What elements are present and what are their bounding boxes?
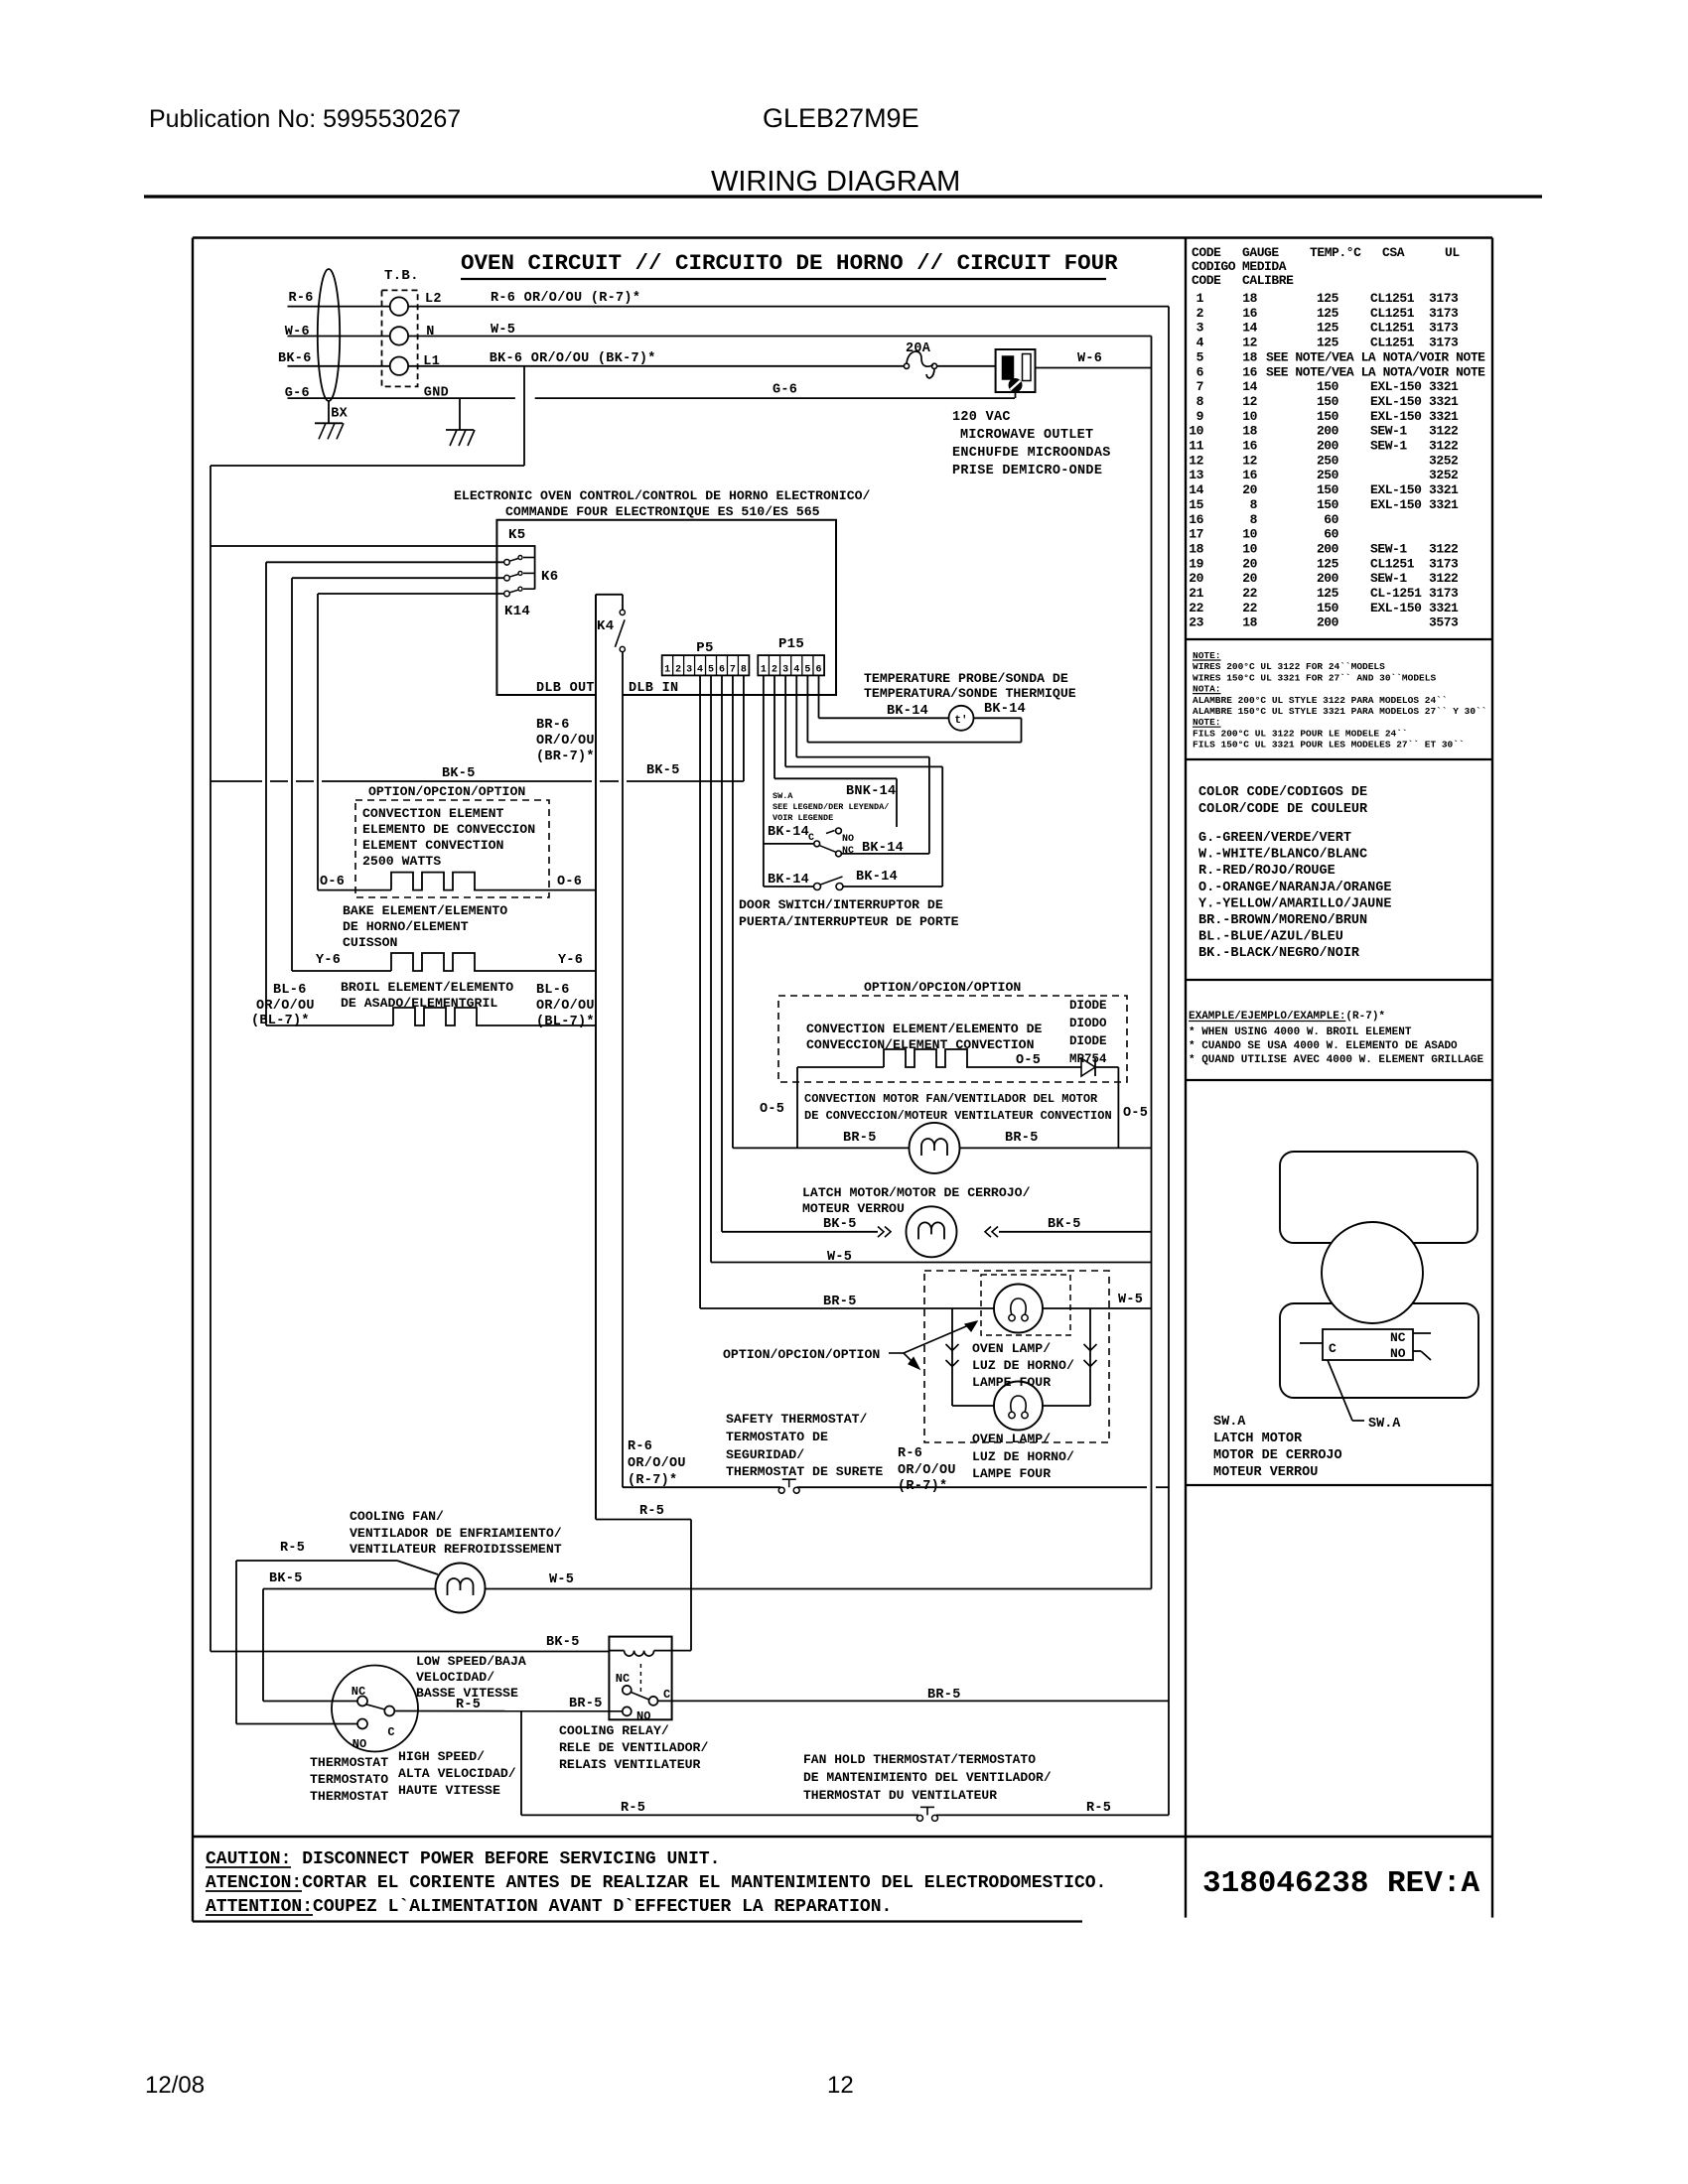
svg-text:4: 4 (793, 665, 799, 676)
svg-text:10: 10 (1242, 541, 1257, 556)
svg-text:2500 WATTS: 2500 WATTS (362, 854, 441, 869)
svg-text:3321: 3321 (1429, 379, 1459, 394)
svg-text:12: 12 (1242, 453, 1257, 468)
svg-text:1: 1 (664, 665, 670, 676)
svg-text:C: C (387, 1725, 394, 1739)
svg-text:LUZ DE HORNO/: LUZ DE HORNO/ (972, 1449, 1074, 1464)
svg-text:125: 125 (1317, 321, 1339, 336)
svg-text:R-6: R-6 (628, 1439, 652, 1454)
svg-text:3173: 3173 (1429, 336, 1459, 350)
svg-text:THERMOSTAT: THERMOSTAT (310, 1755, 388, 1770)
svg-text:CL1251: CL1251 (1370, 291, 1415, 306)
svg-text:EXL-150: EXL-150 (1370, 409, 1422, 424)
svg-text:DLB OUT: DLB OUT (536, 681, 595, 696)
svg-text:250: 250 (1317, 453, 1339, 468)
svg-text:K6: K6 (541, 569, 558, 585)
svg-text:(R-7)*: (R-7)* (628, 1473, 677, 1488)
svg-text:2: 2 (1196, 306, 1204, 321)
svg-text:6: 6 (719, 665, 725, 676)
svg-text:* WHEN USING 4000 W. BROIL ELE: * WHEN USING 4000 W. BROIL ELEMENT (1189, 1026, 1412, 1038)
svg-text:150: 150 (1317, 601, 1339, 615)
svg-text:OR/O/OU: OR/O/OU (536, 734, 595, 749)
svg-text:15: 15 (1189, 497, 1203, 512)
svg-text:7: 7 (730, 665, 736, 676)
svg-text:OVEN LAMP/: OVEN LAMP/ (972, 1432, 1051, 1446)
svg-text:LOW SPEED/BAJA: LOW SPEED/BAJA (416, 1654, 526, 1669)
svg-text:14: 14 (1242, 379, 1257, 394)
svg-text:10: 10 (1189, 424, 1203, 439)
svg-text:SEW-1: SEW-1 (1370, 424, 1407, 439)
svg-text:O-5: O-5 (1016, 1053, 1041, 1068)
svg-text:CODIGO: CODIGO (1192, 259, 1236, 274)
svg-text:8: 8 (1196, 394, 1204, 409)
svg-text:200: 200 (1317, 424, 1339, 439)
svg-text:NC: NC (842, 846, 854, 857)
svg-text:WIRES 150°C UL 3321 FOR 27`` A: WIRES 150°C UL 3321 FOR 27`` AND 30``MOD… (1193, 672, 1436, 683)
svg-text:OPTION/OPCION/OPTION: OPTION/OPCION/OPTION (723, 1347, 880, 1362)
svg-text:60: 60 (1324, 527, 1338, 542)
svg-text:O-5: O-5 (1123, 1106, 1148, 1121)
svg-text:SEW-1: SEW-1 (1370, 571, 1407, 586)
svg-text:19: 19 (1189, 556, 1203, 571)
svg-text:CONVECTION MOTOR FAN/VENTILADO: CONVECTION MOTOR FAN/VENTILADOR DEL MOTO… (804, 1092, 1098, 1106)
svg-text:O-6: O-6 (557, 875, 582, 889)
svg-text:120 VAC: 120 VAC (952, 410, 1011, 425)
svg-text:BK-14: BK-14 (887, 704, 928, 719)
svg-text:R-5: R-5 (639, 1504, 664, 1519)
svg-text:W.-WHITE/BLANCO/BLANC: W.-WHITE/BLANCO/BLANC (1198, 848, 1367, 863)
svg-text:LATCH MOTOR: LATCH MOTOR (1213, 1432, 1303, 1446)
svg-text:BL-6: BL-6 (536, 983, 570, 998)
svg-text:60: 60 (1324, 512, 1338, 527)
svg-text:18: 18 (1242, 349, 1257, 364)
svg-text:RELAIS VENTILATEUR: RELAIS VENTILATEUR (559, 1757, 701, 1772)
svg-text:SW.A: SW.A (1213, 1415, 1246, 1430)
svg-text:BK-5: BK-5 (269, 1571, 303, 1586)
svg-text:SAFETY THERMOSTAT/: SAFETY THERMOSTAT/ (726, 1412, 868, 1427)
svg-text:MOTEUR VERROU: MOTEUR VERROU (1213, 1465, 1318, 1480)
svg-text:125: 125 (1317, 291, 1339, 306)
svg-text:SEE NOTE/VEA LA NOTA/VOIR NOTE: SEE NOTE/VEA LA NOTA/VOIR NOTE (1266, 349, 1485, 364)
svg-text:t': t' (954, 715, 967, 727)
svg-text:BK-14: BK-14 (768, 825, 809, 840)
svg-text:Publication No: 5995530267: Publication No: 5995530267 (149, 105, 461, 133)
svg-text:3321: 3321 (1429, 497, 1459, 512)
svg-text:MOTOR DE CERROJO: MOTOR DE CERROJO (1213, 1448, 1342, 1463)
svg-text:CSA: CSA (1382, 245, 1405, 260)
svg-text:ENCHUFDE MICROONDAS: ENCHUFDE MICROONDAS (952, 446, 1111, 461)
svg-text:125: 125 (1317, 556, 1339, 571)
svg-text:3252: 3252 (1429, 468, 1459, 482)
svg-text:BK-5: BK-5 (546, 1635, 580, 1650)
svg-text:3: 3 (686, 665, 692, 676)
svg-text:FILS 150°C UL 3321 POUR LES MO: FILS 150°C UL 3321 POUR LES MODELES 27``… (1193, 740, 1465, 751)
svg-text:THERMOSTAT DU VENTILATEUR: THERMOSTAT DU VENTILATEUR (803, 1788, 997, 1803)
svg-text:W-6: W-6 (1077, 351, 1102, 366)
svg-text:C: C (663, 1688, 670, 1702)
svg-text:SEGURIDAD/: SEGURIDAD/ (726, 1447, 804, 1462)
svg-text:TEMP.°C: TEMP.°C (1310, 245, 1361, 260)
svg-text:COMMANDE FOUR ELECTRONIQUE ES: COMMANDE FOUR ELECTRONIQUE ES 510/ES 565 (505, 504, 820, 519)
svg-text:NO: NO (636, 1709, 650, 1723)
svg-text:4: 4 (697, 665, 703, 676)
svg-text:3122: 3122 (1429, 424, 1459, 439)
svg-text:VENTILADOR DE ENFRIAMIENTO/: VENTILADOR DE ENFRIAMIENTO/ (350, 1526, 562, 1541)
svg-text:10: 10 (1242, 527, 1257, 542)
svg-text:BL.-BLUE/AZUL/BLEU: BL.-BLUE/AZUL/BLEU (1198, 930, 1343, 945)
svg-text:WIRES 200°C UL 3122 FOR 24``MO: WIRES 200°C UL 3122 FOR 24``MODELS (1193, 661, 1385, 672)
svg-text:W-5: W-5 (491, 323, 515, 338)
svg-text:14: 14 (1189, 482, 1203, 497)
svg-text:VOIR LEGENDE: VOIR LEGENDE (773, 813, 833, 823)
svg-text:OR/O/OU: OR/O/OU (256, 999, 315, 1014)
svg-text:G-6: G-6 (285, 386, 310, 401)
svg-text:NC: NC (1390, 1330, 1406, 1345)
svg-text:ALAMBRE 200°C UL STYLE 3122 PA: ALAMBRE 200°C UL STYLE 3122 PARA MODELOS… (1193, 695, 1448, 706)
svg-text:12: 12 (827, 2072, 854, 2099)
svg-text:250: 250 (1317, 468, 1339, 482)
svg-text:Y-6: Y-6 (316, 953, 341, 968)
svg-text:CL1251: CL1251 (1370, 336, 1415, 350)
svg-text:R-5: R-5 (280, 1541, 305, 1556)
svg-text:EXL-150: EXL-150 (1370, 601, 1422, 615)
svg-text:22: 22 (1242, 586, 1257, 601)
svg-text:18: 18 (1242, 424, 1257, 439)
svg-text:ATENCION:CORTAR EL CORIENTE AN: ATENCION:CORTAR EL CORIENTE ANTES DE REA… (206, 1873, 1106, 1893)
svg-text:NOTA:: NOTA: (1193, 684, 1221, 695)
svg-text:OR/O/OU: OR/O/OU (536, 999, 595, 1014)
svg-text:SW.A: SW.A (1368, 1417, 1401, 1432)
svg-text:5: 5 (708, 665, 714, 676)
svg-text:BROIL ELEMENT/ELEMENTO: BROIL ELEMENT/ELEMENTO (341, 980, 513, 995)
svg-text:21: 21 (1189, 586, 1203, 601)
svg-text:(BR-7)*: (BR-7)* (536, 750, 595, 764)
svg-text:200: 200 (1317, 615, 1339, 630)
svg-text:BR.-BROWN/MORENO/BRUN: BR.-BROWN/MORENO/BRUN (1198, 913, 1367, 928)
svg-text:L1: L1 (423, 354, 440, 369)
svg-text:20: 20 (1189, 571, 1203, 586)
svg-text:CL1251: CL1251 (1370, 556, 1415, 571)
svg-text:OPTION/OPCION/OPTION: OPTION/OPCION/OPTION (864, 980, 1021, 995)
svg-text:18: 18 (1242, 291, 1257, 306)
svg-text:23: 23 (1189, 615, 1203, 630)
svg-text:WIRING DIAGRAM: WIRING DIAGRAM (711, 166, 960, 198)
svg-text:CODE: CODE (1192, 273, 1221, 288)
svg-text:W-5: W-5 (549, 1572, 574, 1587)
svg-text:MEDIDA: MEDIDA (1242, 259, 1287, 274)
svg-text:RELE DE VENTILADOR/: RELE DE VENTILADOR/ (559, 1740, 708, 1755)
svg-text:5: 5 (804, 665, 810, 676)
svg-text:R-5: R-5 (1086, 1801, 1111, 1816)
svg-text:3: 3 (782, 665, 788, 676)
svg-text:K4: K4 (597, 618, 614, 634)
svg-text:GND: GND (424, 386, 449, 401)
svg-text:LAMPE FOUR: LAMPE FOUR (972, 1375, 1051, 1390)
svg-text:9: 9 (1196, 409, 1204, 424)
svg-text:ATTENTION:COUPEZ L`ALIMENTATIO: ATTENTION:COUPEZ L`ALIMENTATION AVANT D`… (206, 1897, 892, 1917)
svg-text:VELOCIDAD/: VELOCIDAD/ (416, 1670, 494, 1685)
svg-text:TEMPERATURA/SONDE THERMIQUE: TEMPERATURA/SONDE THERMIQUE (864, 686, 1076, 701)
svg-text:CALIBRE: CALIBRE (1242, 273, 1294, 288)
svg-text:LATCH MOTOR/MOTOR DE CERROJO/: LATCH MOTOR/MOTOR DE CERROJO/ (802, 1185, 1031, 1200)
svg-text:O-5: O-5 (760, 1102, 784, 1117)
svg-text:18: 18 (1242, 615, 1257, 630)
svg-text:K14: K14 (504, 604, 530, 619)
svg-text:PUERTA/INTERRUPTEUR DE PORTE: PUERTA/INTERRUPTEUR DE PORTE (739, 914, 959, 929)
svg-text:MICROWAVE OUTLET: MICROWAVE OUTLET (960, 428, 1093, 443)
svg-text:3122: 3122 (1429, 439, 1459, 454)
svg-text:3173: 3173 (1429, 556, 1459, 571)
svg-text:12: 12 (1242, 394, 1257, 409)
svg-text:13: 13 (1189, 468, 1203, 482)
svg-text:DE CONVECCION/MOTEUR VENTILATE: DE CONVECCION/MOTEUR VENTILATEUR CONVECT… (804, 1109, 1112, 1123)
svg-text:THERMOSTAT: THERMOSTAT (310, 1789, 388, 1804)
svg-text:COOLING RELAY/: COOLING RELAY/ (559, 1723, 669, 1738)
svg-text:3: 3 (1196, 321, 1204, 336)
svg-text:3173: 3173 (1429, 586, 1459, 601)
svg-text:14: 14 (1242, 321, 1257, 336)
svg-text:NC: NC (352, 1685, 365, 1699)
svg-text:DE HORNO/ELEMENT: DE HORNO/ELEMENT (343, 919, 469, 934)
svg-text:BNK-14: BNK-14 (846, 784, 896, 799)
svg-text:HAUTE VITESSE: HAUTE VITESSE (398, 1783, 500, 1798)
svg-text:EXL-150: EXL-150 (1370, 497, 1422, 512)
svg-text:EXL-150: EXL-150 (1370, 394, 1422, 409)
svg-text:EXL-150: EXL-150 (1370, 482, 1422, 497)
svg-text:BK-5: BK-5 (823, 1217, 857, 1232)
svg-text:CL1251: CL1251 (1370, 306, 1415, 321)
svg-text:BX: BX (331, 407, 348, 422)
svg-text:12/08: 12/08 (145, 2072, 205, 2099)
svg-text:TERMOSTATO: TERMOSTATO (310, 1772, 388, 1787)
svg-text:* QUAND UTILISE AVEC 4000 W. E: * QUAND UTILISE AVEC 4000 W. ELEMENT GRI… (1189, 1054, 1483, 1066)
svg-text:2: 2 (675, 665, 681, 676)
svg-text:16: 16 (1242, 468, 1257, 482)
svg-text:DLB IN: DLB IN (629, 681, 678, 696)
svg-text:SEE NOTE/VEA LA NOTA/VOIR NOTE: SEE NOTE/VEA LA NOTA/VOIR NOTE (1266, 364, 1485, 379)
svg-text:NO: NO (352, 1737, 366, 1751)
svg-text:150: 150 (1317, 497, 1339, 512)
svg-text:DIODO: DIODO (1069, 1017, 1107, 1030)
svg-text:6: 6 (816, 665, 822, 676)
svg-text:DIODE: DIODE (1069, 999, 1107, 1013)
svg-text:16: 16 (1242, 364, 1257, 379)
svg-text:3252: 3252 (1429, 453, 1459, 468)
svg-text:EXL-150: EXL-150 (1370, 379, 1422, 394)
svg-text:18: 18 (1189, 541, 1203, 556)
svg-text:3321: 3321 (1429, 394, 1459, 409)
svg-text:(BL-7)*: (BL-7)* (536, 1015, 595, 1029)
svg-text:COOLING FAN/: COOLING FAN/ (350, 1509, 444, 1524)
svg-text:22: 22 (1189, 601, 1203, 615)
svg-text:Y-6: Y-6 (558, 953, 583, 968)
svg-text:BK-14: BK-14 (856, 870, 898, 885)
svg-text:R.-RED/ROJO/ROUGE: R.-RED/ROJO/ROUGE (1198, 864, 1336, 879)
svg-text:125: 125 (1317, 306, 1339, 321)
svg-text:OVEN CIRCUIT // CIRCUITO DE HO: OVEN CIRCUIT // CIRCUITO DE HORNO // CIR… (461, 250, 1118, 276)
svg-text:150: 150 (1317, 482, 1339, 497)
svg-text:20: 20 (1242, 571, 1257, 586)
svg-text:150: 150 (1317, 394, 1339, 409)
svg-text:200: 200 (1317, 541, 1339, 556)
svg-text:2: 2 (772, 665, 777, 676)
svg-text:CUISSON: CUISSON (343, 935, 397, 950)
svg-text:10: 10 (1242, 409, 1257, 424)
svg-text:3122: 3122 (1429, 541, 1459, 556)
svg-text:P5: P5 (696, 640, 713, 656)
svg-text:150: 150 (1317, 379, 1339, 394)
svg-text:318046238 REV:A: 318046238 REV:A (1202, 1866, 1479, 1901)
svg-text:20: 20 (1242, 482, 1257, 497)
svg-text:22: 22 (1242, 601, 1257, 615)
svg-text:1: 1 (1196, 291, 1204, 306)
svg-text:BL-6: BL-6 (273, 983, 307, 998)
svg-text:CL-1251: CL-1251 (1370, 586, 1422, 601)
svg-text:PRISE DEMICRO-ONDE: PRISE DEMICRO-ONDE (952, 464, 1102, 478)
svg-text:GAUGE: GAUGE (1242, 245, 1279, 260)
svg-text:CONVECTION ELEMENT/ELEMENTO DE: CONVECTION ELEMENT/ELEMENTO DE (806, 1022, 1042, 1036)
svg-text:FILS 200°C UL 3122 POUR LE MOD: FILS 200°C UL 3122 POUR LE MODELE 24`` (1193, 728, 1408, 739)
svg-text:OR/O/OU: OR/O/OU (898, 1463, 956, 1478)
svg-text:20: 20 (1242, 556, 1257, 571)
svg-text:125: 125 (1317, 336, 1339, 350)
svg-text:COLOR/CODE DE COULEUR: COLOR/CODE DE COULEUR (1198, 802, 1368, 817)
svg-text:16: 16 (1242, 306, 1257, 321)
svg-text:BR-5: BR-5 (843, 1131, 877, 1146)
svg-text:GLEB27M9E: GLEB27M9E (763, 103, 919, 133)
svg-text:SEW-1: SEW-1 (1370, 439, 1407, 454)
svg-text:3321: 3321 (1429, 409, 1459, 424)
svg-text:8: 8 (1250, 497, 1258, 512)
svg-text:NOTE:: NOTE: (1193, 717, 1221, 728)
svg-text:P15: P15 (778, 636, 804, 652)
svg-text:DOOR SWITCH/INTERRUPTOR DE: DOOR SWITCH/INTERRUPTOR DE (739, 897, 943, 912)
svg-text:11: 11 (1189, 439, 1203, 454)
svg-text:NO: NO (1390, 1346, 1406, 1361)
svg-text:K5: K5 (508, 527, 525, 543)
svg-text:* CUANDO SE USA 4000 W. ELEMEN: * CUANDO SE USA 4000 W. ELEMENTO DE ASAD… (1189, 1040, 1458, 1052)
svg-text:17: 17 (1189, 527, 1203, 542)
svg-text:BK-14: BK-14 (768, 873, 809, 887)
svg-text:HIGH SPEED/: HIGH SPEED/ (398, 1749, 485, 1764)
svg-text:T.B.: T.B. (384, 268, 419, 284)
svg-text:BK.-BLACK/NEGRO/NOIR: BK.-BLACK/NEGRO/NOIR (1198, 946, 1360, 961)
svg-text:MOTEUR VERROU: MOTEUR VERROU (802, 1201, 905, 1216)
svg-text:BR-5: BR-5 (1005, 1131, 1039, 1146)
svg-text:1: 1 (761, 665, 767, 676)
svg-text:BR-6: BR-6 (536, 718, 570, 733)
svg-text:BK-6: BK-6 (278, 351, 312, 366)
svg-text:8: 8 (1250, 512, 1258, 527)
svg-text:LAMPE FOUR: LAMPE FOUR (972, 1466, 1051, 1481)
svg-text:OPTION/OPCION/OPTION: OPTION/OPCION/OPTION (368, 784, 525, 799)
svg-text:BK-5: BK-5 (442, 766, 476, 781)
svg-text:12: 12 (1189, 453, 1203, 468)
svg-text:6: 6 (1196, 364, 1204, 379)
svg-text:C: C (1329, 1341, 1336, 1356)
svg-text:CAUTION: DISCONNECT POWER BEFO: CAUTION: DISCONNECT POWER BEFORE SERVICI… (206, 1849, 720, 1869)
svg-text:5: 5 (1196, 349, 1204, 364)
svg-text:G-6: G-6 (773, 383, 797, 398)
svg-text:C: C (808, 833, 814, 844)
svg-text:R-6: R-6 (289, 291, 314, 306)
svg-text:200: 200 (1317, 571, 1339, 586)
svg-text:BK-6 OR/O/OU (BK-7)*: BK-6 OR/O/OU (BK-7)* (490, 351, 656, 366)
svg-text:OR/O/OU: OR/O/OU (628, 1456, 686, 1471)
svg-text:NC: NC (616, 1672, 630, 1686)
svg-text:BK-14: BK-14 (984, 702, 1026, 717)
svg-text:3321: 3321 (1429, 482, 1459, 497)
svg-text:R-6: R-6 (898, 1446, 922, 1461)
svg-text:150: 150 (1317, 409, 1339, 424)
svg-text:ELEMENT CONVECTION: ELEMENT CONVECTION (362, 838, 504, 853)
svg-text:VENTILATEUR REFROIDISSEMENT: VENTILATEUR REFROIDISSEMENT (350, 1542, 562, 1557)
svg-text:TERMOSTATO DE: TERMOSTATO DE (726, 1430, 828, 1444)
svg-text:TEMPERATURE PROBE/SONDA DE: TEMPERATURE PROBE/SONDA DE (864, 671, 1068, 686)
svg-text:CODE: CODE (1192, 245, 1221, 260)
svg-text:4: 4 (1196, 336, 1204, 350)
svg-text:3122: 3122 (1429, 571, 1459, 586)
svg-text:BK-5: BK-5 (1048, 1217, 1081, 1232)
svg-text:BR-5: BR-5 (823, 1295, 857, 1309)
svg-text:W-6: W-6 (285, 325, 310, 340)
svg-text:BR-5: BR-5 (569, 1697, 603, 1711)
svg-text:3321: 3321 (1429, 601, 1459, 615)
svg-text:ALTA VELOCIDAD/: ALTA VELOCIDAD/ (398, 1766, 516, 1781)
svg-text:BK-5: BK-5 (646, 763, 680, 778)
svg-text:SW.A: SW.A (773, 791, 793, 801)
svg-text:SEE LEGEND/DER LEYENDA/: SEE LEGEND/DER LEYENDA/ (773, 802, 889, 812)
svg-text:16: 16 (1242, 439, 1257, 454)
svg-text:OVEN LAMP/: OVEN LAMP/ (972, 1341, 1051, 1356)
svg-text:UL: UL (1445, 245, 1460, 260)
svg-text:125: 125 (1317, 586, 1339, 601)
svg-text:FAN HOLD THERMOSTAT/TERMOSTATO: FAN HOLD THERMOSTAT/TERMOSTATO (803, 1752, 1036, 1767)
svg-text:CL1251: CL1251 (1370, 321, 1415, 336)
svg-text:16: 16 (1189, 512, 1203, 527)
svg-text:3173: 3173 (1429, 321, 1459, 336)
svg-text:12: 12 (1242, 336, 1257, 350)
svg-text:ELEMENTO DE CONVECCION: ELEMENTO DE CONVECCION (362, 822, 535, 837)
svg-text:R-6 OR/O/OU (R-7)*: R-6 OR/O/OU (R-7)* (491, 291, 640, 306)
svg-text:LUZ DE HORNO/: LUZ DE HORNO/ (972, 1358, 1074, 1373)
svg-text:R-5: R-5 (621, 1801, 645, 1816)
svg-text:Y.-YELLOW/AMARILLO/JAUNE: Y.-YELLOW/AMARILLO/JAUNE (1198, 896, 1391, 911)
svg-text:COLOR CODE/CODIGOS DE: COLOR CODE/CODIGOS DE (1198, 785, 1367, 800)
svg-text:NOTE:: NOTE: (1193, 650, 1221, 661)
svg-text:ALAMBRE 150°C UL STYLE 3321 PA: ALAMBRE 150°C UL STYLE 3321 PARA MODELOS… (1193, 706, 1486, 717)
svg-text:MR754: MR754 (1069, 1052, 1107, 1066)
svg-text:3573: 3573 (1429, 615, 1459, 630)
svg-text:8: 8 (741, 665, 747, 676)
svg-text:O-6: O-6 (320, 875, 345, 889)
svg-text:3173: 3173 (1429, 291, 1459, 306)
svg-text:200: 200 (1317, 439, 1339, 454)
svg-text:SEW-1: SEW-1 (1370, 541, 1407, 556)
svg-text:3173: 3173 (1429, 306, 1459, 321)
svg-text:W-5: W-5 (1118, 1293, 1143, 1307)
svg-text:THERMOSTAT DE SURETE: THERMOSTAT DE SURETE (726, 1464, 883, 1479)
svg-text:DIODE: DIODE (1069, 1034, 1107, 1048)
svg-text:ELECTRONIC OVEN CONTROL/CONTRO: ELECTRONIC OVEN CONTROL/CONTROL DE HORNO… (454, 488, 871, 503)
svg-text:7: 7 (1196, 379, 1203, 394)
svg-text:O.-ORANGE/NARANJA/ORANGE: O.-ORANGE/NARANJA/ORANGE (1198, 881, 1391, 895)
svg-text:G.-GREEN/VERDE/VERT: G.-GREEN/VERDE/VERT (1198, 831, 1351, 846)
svg-text:N: N (426, 325, 434, 340)
svg-text:CONVECTION ELEMENT: CONVECTION ELEMENT (362, 806, 504, 821)
svg-text:L2: L2 (425, 292, 442, 307)
svg-text:DE MANTENIMIENTO DEL VENTILADO: DE MANTENIMIENTO DEL VENTILADOR/ (803, 1770, 1052, 1785)
